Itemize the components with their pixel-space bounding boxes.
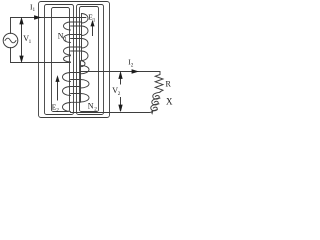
emf arrow E2 bbox=[57, 80, 59, 101]
svg-text:N: N bbox=[88, 102, 94, 111]
winding N1 front turns bbox=[82, 14, 89, 24]
voltage arrow V2 bbox=[120, 77, 122, 85]
svg-text:1: 1 bbox=[29, 39, 32, 45]
winding N2 top hook bbox=[81, 61, 86, 67]
inductor X bbox=[153, 92, 160, 99]
wire primary bottom bbox=[11, 48, 71, 63]
winding N1 crossover wires bbox=[71, 25, 82, 27]
svg-text:1: 1 bbox=[64, 37, 67, 43]
winding N2 spine bbox=[80, 61, 82, 102]
svg-text:N: N bbox=[58, 32, 64, 41]
winding N2 back turns bbox=[81, 65, 89, 74]
svg-text:1: 1 bbox=[93, 17, 96, 23]
voltage arrow V1 bbox=[21, 22, 23, 58]
winding N2 crossover wires bbox=[71, 79, 81, 81]
winding N1 back turns bbox=[64, 22, 71, 30]
svg-text:2: 2 bbox=[56, 107, 59, 113]
svg-text:X: X bbox=[166, 97, 173, 107]
flux loop left limb bbox=[45, 5, 74, 115]
resistor R bbox=[155, 75, 163, 93]
wire primary top bbox=[11, 18, 87, 34]
flux loop right limb bbox=[77, 5, 104, 115]
winding N2 front turns bbox=[63, 73, 71, 82]
wire secondary bottom bbox=[71, 110, 153, 112]
current arrow I1 bbox=[35, 16, 41, 19]
svg-text:R: R bbox=[166, 80, 172, 89]
emf arrow E1 bbox=[92, 24, 94, 36]
wire secondary top bbox=[81, 72, 161, 75]
core outer boundary bbox=[39, 2, 110, 118]
svg-text:2: 2 bbox=[131, 63, 134, 69]
core window left bbox=[52, 8, 70, 112]
winding N1 spine bbox=[81, 14, 83, 61]
core window right bbox=[80, 7, 99, 112]
svg-text:2: 2 bbox=[94, 107, 97, 113]
source V1 (AC) bbox=[3, 33, 18, 48]
svg-text:2: 2 bbox=[118, 91, 121, 97]
svg-text:1: 1 bbox=[33, 7, 36, 13]
current arrow I2 bbox=[132, 70, 138, 73]
